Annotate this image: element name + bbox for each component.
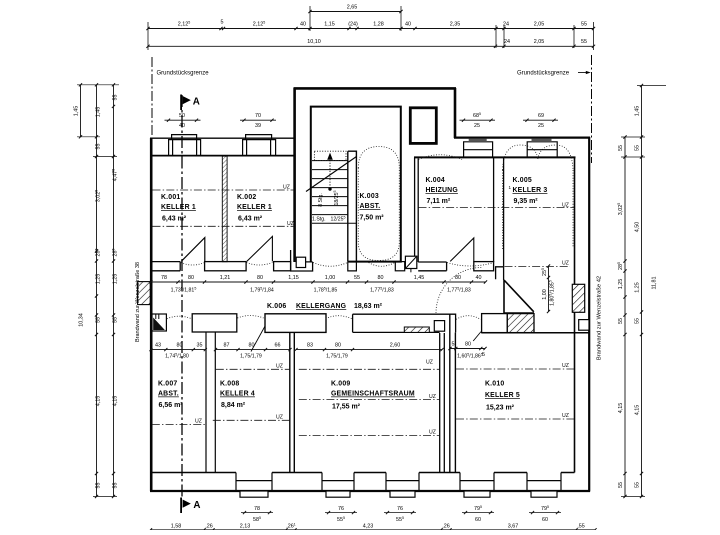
pillar chimney breast top-right 2 <box>527 142 557 158</box>
dimension pillars top <box>165 119 201 122</box>
svg-text:UZ: UZ <box>276 414 283 420</box>
wall stairwell box <box>311 107 401 262</box>
svg-text:1,28: 1,28 <box>373 21 384 27</box>
svg-text:1,775/1,83: 1,775/1,83 <box>370 287 394 294</box>
svg-text:24: 24 <box>504 39 510 45</box>
arc vault K.004 top <box>419 155 463 160</box>
svg-text:KELLER 4: KELLER 4 <box>220 391 255 398</box>
dimension window sizes bottom <box>241 511 273 514</box>
beam UZ K.007 <box>152 423 206 425</box>
wall stair / K.003 divider <box>348 151 357 261</box>
svg-text:1,745/1,80: 1,745/1,80 <box>165 352 189 359</box>
svg-text:UZ: UZ <box>429 430 436 436</box>
arc door K.002 <box>246 263 272 266</box>
svg-text:1,45: 1,45 <box>635 106 641 117</box>
window W2 <box>322 473 354 492</box>
svg-text:,26: ,26 <box>205 524 213 530</box>
svg-text:1,25: 1,25 <box>635 282 641 293</box>
svg-text:35: 35 <box>197 342 203 348</box>
pillar chimney breast top-left 2 <box>243 135 276 156</box>
dimension chain L1 <box>79 83 82 138</box>
arc door K.010 <box>456 316 481 320</box>
svg-text:K.003: K.003 <box>360 193 379 200</box>
dimension chain R1 <box>623 135 626 498</box>
svg-text:2,05: 2,05 <box>534 39 545 45</box>
svg-text:UZ: UZ <box>562 261 569 267</box>
beam UZ K.010 upper <box>456 368 574 370</box>
svg-text:UZ: UZ <box>562 413 569 419</box>
svg-text:1,45: 1,45 <box>414 275 425 281</box>
wall K.010 top line <box>482 332 590 334</box>
svg-text:,26: ,26 <box>442 524 450 530</box>
dimension chain R2 <box>640 84 643 498</box>
svg-text:6,56 m²: 6,56 m² <box>159 402 184 409</box>
svg-text:55: 55 <box>618 145 624 151</box>
svg-text:7,50 m²: 7,50 m² <box>360 215 385 222</box>
svg-text:1,21: 1,21 <box>220 275 231 281</box>
arc door K.001 <box>181 263 205 266</box>
svg-text:55: 55 <box>354 275 360 281</box>
svg-text:4,15: 4,15 <box>113 396 119 407</box>
svg-text:1,25: 1,25 <box>113 274 119 285</box>
svg-text:50: 50 <box>179 113 185 119</box>
svg-text:76: 76 <box>338 506 344 512</box>
section line A-A <box>181 95 183 497</box>
svg-text:8 Stg.: 8 Stg. <box>318 193 324 207</box>
svg-text:1,75/1,79: 1,75/1,79 <box>326 353 348 359</box>
svg-text:55: 55 <box>113 483 119 489</box>
dimension chain topA <box>308 10 402 13</box>
wall corridor right step <box>503 267 505 280</box>
dimension chain topB <box>146 27 595 30</box>
svg-text:K.008: K.008 <box>220 381 239 388</box>
pillar chimney breast top-right 1 <box>464 142 493 158</box>
svg-text:UZ: UZ <box>287 221 294 227</box>
svg-text:1,805/1,855: 1,805/1,855 <box>549 280 556 306</box>
svg-text:80: 80 <box>177 342 183 348</box>
wire stair-tower top wall <box>294 87 457 90</box>
dimension chain topC <box>146 45 595 48</box>
svg-text:K.001: K.001 <box>161 194 180 201</box>
svg-text:55: 55 <box>618 482 624 488</box>
wall diagonal cellar-stair <box>504 280 534 313</box>
svg-text:1.Stg.: 1.Stg. <box>312 217 326 223</box>
svg-text:80: 80 <box>455 275 461 281</box>
wall corridor top band block 2 <box>205 262 247 271</box>
svg-text:6,43 m²: 6,43 m² <box>162 216 187 223</box>
svg-text:UZ: UZ <box>562 363 569 369</box>
wall K.004 left <box>415 157 419 262</box>
beam UZ corridor right <box>505 266 571 268</box>
svg-text:15,23 m²: 15,23 m² <box>486 405 515 412</box>
svg-text:40: 40 <box>179 123 185 129</box>
svg-text:1,25: 1,25 <box>618 279 624 290</box>
svg-text:70: 70 <box>255 113 261 119</box>
dimension chain L3 <box>112 83 115 498</box>
svg-text:80: 80 <box>188 275 194 281</box>
door K.003 leaf square <box>405 256 416 268</box>
wire bottom wall inner face segments between windows <box>151 472 575 474</box>
svg-text:4,50: 4,50 <box>635 222 641 233</box>
svg-text:KELLERGANG: KELLERGANG <box>296 303 346 310</box>
svg-text:8,84 m²: 8,84 m² <box>221 402 246 409</box>
svg-text:KELLER 3: KELLER 3 <box>513 187 548 194</box>
chimney block <box>410 108 436 144</box>
beam UZ K.009 upper <box>299 368 440 370</box>
section flag A bottom <box>180 498 182 514</box>
svg-text:1,45: 1,45 <box>96 107 102 118</box>
svg-text:K.005: K.005 <box>513 177 532 184</box>
wire stair-tower left wall <box>293 88 296 262</box>
svg-text:A: A <box>193 500 200 511</box>
wall K.004 bottom band <box>418 262 446 271</box>
svg-text:78: 78 <box>161 275 167 281</box>
svg-text:10,10: 10,10 <box>307 39 321 45</box>
dimension chain bottom <box>149 528 597 531</box>
svg-text:55: 55 <box>113 95 119 101</box>
arc vault K.003 capsule <box>358 147 399 261</box>
svg-text:87: 87 <box>224 342 230 348</box>
svg-text:55: 55 <box>618 318 624 324</box>
wall K.003 left foot <box>348 262 357 271</box>
svg-text:80: 80 <box>378 275 384 281</box>
wall hatch strip over K.009 <box>404 327 429 332</box>
window W4 <box>460 473 494 492</box>
dimension chain G2 <box>214 348 292 351</box>
wire bottom wall outer face <box>150 490 590 492</box>
svg-text:5: 5 <box>452 341 455 347</box>
wire top-left outer wall face <box>150 137 295 139</box>
leader line G2 door <box>251 327 265 352</box>
svg-text:17,55 m²: 17,55 m² <box>332 404 361 411</box>
section flag A top <box>180 95 182 111</box>
svg-text:UZ: UZ <box>426 360 433 366</box>
svg-text:80: 80 <box>257 275 263 281</box>
dimension chain G3 <box>294 348 443 351</box>
svg-text:Grundstücksgrenze: Grundstücksgrenze <box>517 71 570 77</box>
arc vault K.005 top <box>503 145 574 170</box>
wall hatched pier right wall <box>572 284 584 312</box>
svg-text:Brandwand zur Wenzelstraße 38: Brandwand zur Wenzelstraße 38 <box>135 262 141 342</box>
svg-text:,55: ,55 <box>577 524 585 530</box>
wire right exterior wall inner face <box>574 157 576 472</box>
window W3 <box>386 473 419 492</box>
door swing K.001 <box>181 238 205 262</box>
beam UZ K.009 lower <box>299 434 440 436</box>
wire top-right outer wall face <box>454 137 590 139</box>
svg-text:ABST.: ABST. <box>360 203 381 210</box>
door leader K.010 <box>473 332 481 341</box>
svg-text:UZ: UZ <box>195 419 202 425</box>
arc door K.007 <box>167 316 192 319</box>
beam UZ K.001/K.002 lower <box>153 225 295 227</box>
wall corridor top band left block <box>151 262 180 271</box>
wall corridor bottom band : block K.007-K.008 <box>192 314 237 332</box>
beam UZ K.008 upper <box>216 368 290 370</box>
door swing K.002 <box>247 236 273 261</box>
arc door K.004 <box>447 263 494 267</box>
door swing K.004 <box>450 238 474 261</box>
svg-text:12/255: 12/255 <box>331 216 346 223</box>
dimension chain L2 <box>95 83 98 498</box>
svg-text:80: 80 <box>465 341 471 347</box>
dimension chain G4 <box>448 347 486 350</box>
svg-text:1,735/1,815: 1,735/1,815 <box>171 287 197 294</box>
arc door K.008 <box>237 316 263 319</box>
svg-text:1,00: 1,00 <box>325 275 336 281</box>
svg-text:K.009: K.009 <box>331 381 350 388</box>
svg-text:18/255: 18/255 <box>333 191 340 206</box>
svg-text:UZ: UZ <box>276 364 283 370</box>
svg-text:1,25: 1,25 <box>96 274 102 285</box>
beam UZ K.001/K.002 upper <box>153 189 295 191</box>
svg-text:K.004: K.004 <box>426 177 445 184</box>
chimney hatched on outside of left wall <box>138 282 151 305</box>
svg-text:UZ: UZ <box>429 394 436 400</box>
svg-text:ABST.: ABST. <box>158 391 179 398</box>
svg-text:83: 83 <box>307 342 313 348</box>
wall corridor bottom band : block K.008-K.009 <box>265 314 326 333</box>
svg-text:40: 40 <box>300 21 306 27</box>
svg-text:2,35: 2,35 <box>450 21 461 27</box>
svg-text:7,11 m²: 7,11 m² <box>427 198 451 205</box>
wall K.010 left <box>450 314 456 473</box>
svg-text:9,35 m²: 9,35 m² <box>514 198 539 205</box>
stair up arrow <box>329 160 331 187</box>
svg-text:1,75/1,79: 1,75/1,79 <box>240 353 262 359</box>
svg-text:(24): (24) <box>348 21 358 27</box>
svg-text:1,45: 1,45 <box>73 106 79 117</box>
svg-text:2,60: 2,60 <box>390 342 401 348</box>
svg-text:2,13: 2,13 <box>240 524 251 530</box>
svg-text:6,43 m²: 6,43 m² <box>238 216 263 223</box>
wall stair tower foot block <box>291 250 313 271</box>
svg-text:55: 55 <box>96 317 102 323</box>
stair break line diagonal <box>306 157 357 192</box>
svg-text:55: 55 <box>581 39 587 45</box>
property line left <box>151 57 153 137</box>
svg-text:KELLER 1: KELLER 1 <box>161 204 196 211</box>
wall corridor top band block 3 <box>274 262 291 271</box>
svg-text:55: 55 <box>635 145 641 151</box>
arc swing K.010 door big <box>436 268 482 314</box>
svg-text:1,58: 1,58 <box>171 524 182 530</box>
beam UZ K.008 lower <box>213 419 290 421</box>
wall K.008/K.009 <box>290 332 295 473</box>
svg-text:39: 39 <box>255 123 261 129</box>
wire left exterior wall <box>150 138 153 491</box>
svg-text:10,34: 10,34 <box>79 313 85 327</box>
svg-text:55: 55 <box>635 482 641 488</box>
stair landing dotted <box>314 151 346 160</box>
svg-text:43: 43 <box>155 342 161 348</box>
wire right rooms top wall face <box>414 156 576 158</box>
svg-text:1,15: 1,15 <box>288 275 299 281</box>
svg-text:25: 25 <box>474 123 480 129</box>
svg-text:66: 66 <box>275 342 281 348</box>
window W1 <box>236 473 272 492</box>
svg-text:KELLER 5: KELLER 5 <box>485 392 520 399</box>
dimension chain Vstair <box>547 264 550 313</box>
svg-text:4,23: 4,23 <box>363 524 374 530</box>
wall partition K.001/K.002 hatched <box>222 156 227 262</box>
svg-text:78: 78 <box>254 506 260 512</box>
svg-text:69: 69 <box>538 113 544 119</box>
svg-text:55: 55 <box>96 483 102 489</box>
wall K.003 right foot <box>395 262 404 271</box>
wall K.004/K.005 partition <box>494 157 504 279</box>
svg-text:1,15: 1,15 <box>324 21 335 27</box>
dimension chain corridor <box>149 280 487 283</box>
beam UZ K.009 middle <box>299 399 440 401</box>
svg-text:1,785/1,85: 1,785/1,85 <box>314 287 338 294</box>
svg-text:Brandwand zur Wenzelstraße 42: Brandwand zur Wenzelstraße 42 <box>597 276 603 360</box>
svg-text:4,15: 4,15 <box>618 403 624 414</box>
svg-text:2,05: 2,05 <box>534 21 545 27</box>
node square post at K.009/K.010 <box>434 321 444 332</box>
svg-text:K.010: K.010 <box>485 381 504 388</box>
property line right <box>591 55 593 163</box>
wire right exterior wall outer face <box>588 137 590 492</box>
svg-text:55: 55 <box>581 21 587 27</box>
arc door K.009 <box>326 316 352 319</box>
svg-text:2,65: 2,65 <box>347 4 358 10</box>
svg-text:K.007: K.007 <box>158 381 177 388</box>
svg-text:40: 40 <box>476 275 482 281</box>
arc door K.003 <box>369 263 395 267</box>
svg-text:HEIZUNG: HEIZUNG <box>426 187 458 194</box>
wall block white right of K.010 door <box>482 314 508 333</box>
wall K.007/K.008 partition <box>206 332 215 473</box>
svg-text:A: A <box>193 96 200 107</box>
svg-text:76: 76 <box>397 506 403 512</box>
wire top-left inner wall face <box>150 155 295 157</box>
svg-text:4,15: 4,15 <box>635 405 641 416</box>
wall K.009/K.010 left leaf <box>440 333 445 473</box>
wall K.004 bottom band right part <box>474 262 494 271</box>
svg-text:80: 80 <box>249 342 255 348</box>
svg-text:1,775/1,83: 1,775/1,83 <box>447 287 471 294</box>
arc stair exit <box>313 263 348 267</box>
svg-text:55: 55 <box>96 144 102 150</box>
svg-text:18,63 m²: 18,63 m² <box>354 303 383 310</box>
node door-post square stair exit <box>296 257 305 267</box>
svg-text:UZ: UZ <box>562 202 569 208</box>
svg-text:1,795/1,84: 1,795/1,84 <box>250 287 274 294</box>
beam UZ K.010 lower <box>456 418 574 420</box>
dimension chain G1 <box>149 348 207 351</box>
label UZ beams <box>195 185 569 436</box>
svg-text:3,67: 3,67 <box>508 524 519 530</box>
wire stair-tower right wall <box>454 88 457 138</box>
svg-text:11,81: 11,81 <box>652 276 658 289</box>
svg-text:5: 5 <box>221 20 224 26</box>
stair treads <box>312 161 356 224</box>
window left corridor end with shutter <box>152 314 166 331</box>
svg-text:K.006: K.006 <box>267 303 286 310</box>
wall corridor bottom band : block K.009 right <box>353 314 456 332</box>
svg-text:Grundstücksgrenze: Grundstücksgrenze <box>157 71 210 77</box>
pillar chimney breast top-left 1 <box>169 135 201 156</box>
svg-text:55: 55 <box>635 318 641 324</box>
svg-text:4,15: 4,15 <box>96 396 102 407</box>
svg-text:K.002: K.002 <box>237 194 256 201</box>
svg-text:60: 60 <box>542 517 548 523</box>
node square post right end corridor <box>579 320 589 331</box>
svg-text:1,00: 1,00 <box>542 289 548 300</box>
svg-text:60: 60 <box>475 517 481 523</box>
svg-text:UZ: UZ <box>283 185 290 191</box>
svg-text:25: 25 <box>538 123 544 129</box>
wall block hatched under cellar stair <box>507 314 534 333</box>
svg-text:1,605/1,865: 1,605/1,865 <box>457 353 483 360</box>
beam UZ K.004/K.005 <box>419 207 575 209</box>
svg-text:5: 5 <box>482 352 485 358</box>
svg-text:55: 55 <box>113 317 119 323</box>
svg-text:80: 80 <box>335 342 341 348</box>
svg-text:GEMEINSCHAFTSRAUM: GEMEINSCHAFTSRAUM <box>331 391 415 398</box>
svg-text:40: 40 <box>405 21 411 27</box>
window W5 <box>527 473 561 492</box>
svg-text:KELLER 1: KELLER 1 <box>237 204 272 211</box>
